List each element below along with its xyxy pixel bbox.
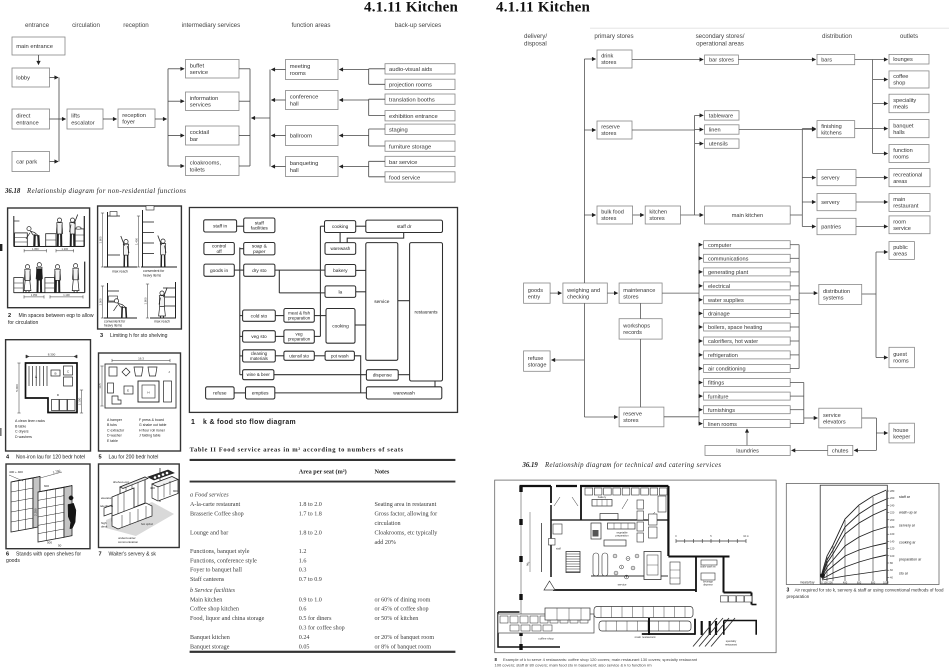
wire trunk3 to function box xyxy=(272,99,286,101)
floorplan mid kitchen islands xyxy=(600,514,618,520)
chart y ticks xyxy=(887,490,889,492)
svg-text:4.1.11 Kitchen: 4.1.11 Kitchen xyxy=(496,0,591,16)
box cleaning materials xyxy=(243,350,276,362)
wire trunk to drink stores xyxy=(584,58,595,60)
svg-text:house: house xyxy=(893,428,908,434)
chart curve cooking xyxy=(822,527,887,577)
svg-text:main: main xyxy=(893,197,905,203)
fig4 top dim xyxy=(26,356,77,358)
wire dry sto - bakery xyxy=(275,269,325,271)
svg-text:stores: stores xyxy=(601,216,616,222)
svg-text:guest: guest xyxy=(893,352,907,358)
svg-text:E table: E table xyxy=(107,439,118,443)
box furniture xyxy=(704,392,791,400)
svg-text:telephone: telephone xyxy=(100,504,114,508)
svg-text:cloakrooms,: cloakrooms, xyxy=(190,161,222,167)
svg-text:Notes: Notes xyxy=(375,469,390,476)
svg-text:heavy items: heavy items xyxy=(104,324,122,328)
svg-text:keeper: keeper xyxy=(893,434,910,440)
svg-text:staff ar: staff ar xyxy=(899,495,911,499)
svg-text:or 8% of banquet room: or 8% of banquet room xyxy=(375,644,432,651)
svg-text:escalator: escalator xyxy=(71,120,95,126)
svg-text:8: 8 xyxy=(495,657,498,662)
wire workshops to reserve lower xyxy=(640,339,642,407)
svg-text:10.5: 10.5 xyxy=(98,383,102,389)
svg-text:stores: stores xyxy=(623,418,638,424)
wire bakery - service xyxy=(356,269,366,271)
trunk D2 vertical xyxy=(875,418,877,450)
svg-text:service: service xyxy=(893,226,911,232)
svg-text:Min spaces between eqp to allo: Min spaces between eqp to allow xyxy=(19,313,94,319)
fig3 Q4 wall and shelves xyxy=(175,282,177,318)
svg-text:sto ar: sto ar xyxy=(899,572,909,576)
box fittings xyxy=(704,379,791,387)
box car park xyxy=(12,152,50,172)
box drainage xyxy=(704,309,791,317)
svg-text:checking: checking xyxy=(567,294,589,300)
stack trunk R2 vertical xyxy=(803,383,805,424)
fig7 screen panel front xyxy=(112,488,134,521)
fig4 left dim xyxy=(18,363,20,413)
svg-text:D washer: D washer xyxy=(107,434,123,438)
svg-text:Brasserie Coffee shop: Brasserie Coffee shop xyxy=(190,511,244,518)
stub R2 linen rooms xyxy=(790,423,804,425)
floorplan left curtain wall xyxy=(520,486,522,646)
svg-text:service: service xyxy=(823,413,841,419)
svg-text:furniture: furniture xyxy=(708,394,729,400)
fig2 person at shelf xyxy=(70,218,74,222)
svg-text:areas: areas xyxy=(893,252,907,258)
svg-text:heavy items: heavy items xyxy=(143,273,161,277)
svg-text:function areas: function areas xyxy=(292,22,331,29)
svg-text:entrance: entrance xyxy=(25,22,50,29)
svg-text:260: 260 xyxy=(890,496,895,500)
svg-text:servery ar: servery ar xyxy=(899,524,916,528)
fig7 high desk xyxy=(104,505,112,516)
svg-text:restaurant: restaurant xyxy=(725,642,737,646)
trunk4 vertical xyxy=(249,69,251,166)
wire reserve lower to stack trunk L xyxy=(664,416,699,418)
svg-text:exhibition entrance: exhibition entrance xyxy=(389,114,438,120)
box lifts escalator xyxy=(67,109,103,129)
box service xyxy=(366,243,398,361)
fig4 plan walls xyxy=(26,363,78,413)
fig2 person dark row2 xyxy=(37,263,41,267)
fig5 folding table J2 xyxy=(164,381,172,402)
svg-text:warewash: warewash xyxy=(330,246,350,251)
wire weighing to maintenance stores xyxy=(607,292,617,294)
box speciality meals xyxy=(889,94,929,113)
svg-text:kitchens: kitchens xyxy=(821,130,842,136)
floorplan top wall xyxy=(520,485,552,487)
fig3 Q2 ground xyxy=(141,266,177,268)
wire L to boilers, space heating xyxy=(699,326,702,328)
fig3 Q3 wall and shelves xyxy=(107,283,109,318)
svg-text:lounges: lounges xyxy=(893,57,913,63)
fig1 vertical x320 xyxy=(319,226,321,336)
svg-text:services: services xyxy=(190,103,211,109)
fig2 row1 left wall xyxy=(13,216,15,247)
fig3 Q4 ground xyxy=(150,317,176,319)
wire cleaning - utensil sto xyxy=(275,355,284,357)
fig3 Q1 wall and shelves xyxy=(107,212,109,267)
box refuse storage xyxy=(524,351,551,371)
svg-text:primary stores: primary stores xyxy=(594,33,633,40)
box house keeper xyxy=(889,423,914,443)
svg-text:max reach: max reach xyxy=(154,319,170,323)
svg-text:workshops: workshops xyxy=(622,324,650,330)
svg-text:banqueting: banqueting xyxy=(290,161,319,167)
svg-text:intermediary services: intermediary services xyxy=(182,22,240,29)
svg-text:utensils: utensils xyxy=(709,142,728,148)
svg-text:J folding table: J folding table xyxy=(139,434,161,438)
box reserve stores lower xyxy=(619,407,664,427)
figure 3 frame: limiting heights for sto shelving xyxy=(98,206,182,329)
svg-text:2: 2 xyxy=(8,313,11,319)
box translation booths xyxy=(385,94,455,104)
wire D2 to house keeper xyxy=(876,432,887,434)
svg-text:2.250: 2.250 xyxy=(34,508,38,516)
box cold sto xyxy=(243,310,276,321)
fig6 person silhouette xyxy=(68,496,76,529)
fig2 row1 ground xyxy=(14,246,85,248)
svg-text:4: 4 xyxy=(6,454,10,460)
svg-text:kitchen: kitchen xyxy=(649,210,667,216)
wire main kitchen to trunk C xyxy=(790,214,802,216)
svg-text:fittings: fittings xyxy=(708,381,724,387)
wire B to coffee shop xyxy=(873,79,888,81)
svg-text:preparation: preparation xyxy=(615,533,629,537)
wire empties - warewash bottom xyxy=(275,392,367,394)
svg-text:bottle wash rm: bottle wash rm xyxy=(700,566,716,569)
svg-text:linen: linen xyxy=(709,127,721,133)
box service elevators xyxy=(819,408,862,428)
box function rooms xyxy=(889,145,929,163)
trunk3 vertical xyxy=(269,70,271,167)
box meeting rooms xyxy=(286,60,339,80)
svg-text:Cloakrooms, etc typically: Cloakrooms, etc typically xyxy=(375,531,439,537)
svg-text:F press & board: F press & board xyxy=(139,418,164,422)
svg-text:Non-iron lau for 120 bedr hote: Non-iron lau for 120 bedr hotel xyxy=(16,454,85,460)
svg-text:A clean linen racks: A clean linen racks xyxy=(15,419,45,423)
svg-text:distribution: distribution xyxy=(823,289,850,295)
box kitchen stores xyxy=(645,206,680,224)
wire reserve stores to V2 xyxy=(632,129,695,131)
box veg sto xyxy=(243,331,276,342)
svg-text:cooking: cooking xyxy=(332,224,349,230)
box utensil sto xyxy=(284,351,314,360)
wire car park to trunk xyxy=(50,161,59,163)
wire main entrance to lobby xyxy=(38,55,40,65)
figure 2 frame: min spaces between equipment xyxy=(8,208,90,308)
stub R1 electrical xyxy=(790,285,799,287)
svg-text:3: 3 xyxy=(787,588,790,594)
svg-text:goods in: goods in xyxy=(210,268,228,274)
wire servery to main restaurant xyxy=(856,201,887,203)
svg-text:tableware: tableware xyxy=(709,113,733,119)
svg-text:function: function xyxy=(893,148,913,154)
fig2 row2 table left xyxy=(14,278,23,293)
trunk C vertical xyxy=(801,129,803,227)
svg-text:coffee shop: coffee shop xyxy=(538,637,554,641)
svg-text:food service: food service xyxy=(389,175,420,181)
wire reception foyer to trunk2 xyxy=(155,118,167,120)
svg-text:meeting: meeting xyxy=(290,64,311,70)
svg-text:hall: hall xyxy=(290,168,299,174)
svg-text:400: 400 xyxy=(150,486,155,490)
box exhibition entrance xyxy=(385,111,455,121)
floorplan right column small rooms xyxy=(637,500,644,509)
svg-text:reserve: reserve xyxy=(623,412,642,418)
fig3 Q2 wall and shelves xyxy=(142,210,144,267)
wire intermediary to trunk4 xyxy=(239,68,250,70)
svg-text:1.8 to 2.0: 1.8 to 2.0 xyxy=(299,531,322,537)
svg-text:cocktail: cocktail xyxy=(190,130,209,136)
svg-text:public: public xyxy=(893,245,908,251)
box soap and paper xyxy=(244,243,275,256)
svg-text:1.2: 1.2 xyxy=(299,549,307,555)
floorplan top equipment row xyxy=(585,488,593,495)
wire utensil sto - pot wash xyxy=(314,355,325,357)
svg-text:drink: drink xyxy=(601,54,613,60)
fig7 screen panel back xyxy=(120,477,145,513)
svg-text:2.100: 2.100 xyxy=(78,397,82,405)
svg-text:dispense: dispense xyxy=(373,373,393,379)
svg-text:goods: goods xyxy=(528,288,543,294)
floorplan stairs diagonal hatch xyxy=(693,618,717,647)
wire chutes to laundries xyxy=(792,449,828,451)
wire x320 - cooking top xyxy=(320,225,324,227)
svg-text:b Service facilities: b Service facilities xyxy=(190,587,236,594)
box chutes xyxy=(828,445,853,455)
svg-text:bar stores: bar stores xyxy=(709,58,734,64)
wire service elevators to trunk D2 xyxy=(862,417,877,419)
svg-text:400 + 400: 400 + 400 xyxy=(9,470,23,474)
wire veg sto - veg prep xyxy=(275,335,284,337)
trunk D vertical xyxy=(875,252,877,358)
link conference hall to translation/exhibition xyxy=(368,99,370,115)
svg-text:systems: systems xyxy=(823,296,844,302)
svg-text:1.400: 1.400 xyxy=(135,238,139,245)
link ballroom to staging/furniture xyxy=(368,129,370,146)
fig2 row2 dims xyxy=(24,296,44,298)
svg-text:drainage: drainage xyxy=(708,312,730,318)
wire finishing kitchens to banquet halls xyxy=(855,128,888,130)
box projection rooms xyxy=(385,79,455,89)
wire C to servery 2 xyxy=(802,201,815,203)
box goods in xyxy=(204,264,234,276)
figure 4 frame: non-iron laundry plan xyxy=(6,340,91,451)
wire L to refrigeration xyxy=(699,354,702,356)
svg-text:dispense: dispense xyxy=(703,583,713,586)
wire cooking top - warewash top xyxy=(339,233,341,243)
svg-text:7: 7 xyxy=(99,551,102,557)
svg-text:secondary stores/: secondary stores/ xyxy=(696,33,745,40)
svg-text:C extractor: C extractor xyxy=(107,428,125,432)
svg-text:Example of k to serve 4 restau: Example of k to serve 4 restaurants: cof… xyxy=(503,657,698,662)
svg-text:back-up services: back-up services xyxy=(395,22,441,29)
svg-text:empties: empties xyxy=(252,391,269,397)
fig5 left dim xyxy=(101,366,103,406)
fig4 washers D xyxy=(52,400,60,411)
wire intermediary to trunk4 xyxy=(239,100,250,102)
svg-text:servery: servery xyxy=(821,176,840,182)
svg-text:Air required for sto k, server: Air required for sto k, servery & staff … xyxy=(795,588,944,593)
svg-text:1.200: 1.200 xyxy=(62,247,69,251)
svg-text:H: H xyxy=(147,391,149,395)
floorplan main restaurant counters xyxy=(594,607,693,618)
wire x279 - la xyxy=(279,292,325,294)
wire trunk3 to function box xyxy=(272,69,286,71)
box meat and fish preparation xyxy=(284,309,314,323)
box bars xyxy=(817,54,855,64)
wire pot wash - warewash link xyxy=(354,356,360,393)
svg-text:main kitchen: main kitchen xyxy=(732,213,763,219)
fig2 person 3 row2 xyxy=(55,265,59,269)
wire trunk to bulk food stores xyxy=(584,214,595,216)
wire V2 to utensils xyxy=(695,143,704,145)
wire restaurants - warewash bottom xyxy=(434,381,436,387)
box furnishings xyxy=(704,406,791,414)
svg-text:room: room xyxy=(893,220,906,226)
chart plot area xyxy=(820,485,887,584)
svg-text:translation booths: translation booths xyxy=(389,98,435,104)
trunk outlets vertical B xyxy=(872,60,874,154)
fig2 row1 shelf right xyxy=(75,229,84,246)
svg-text:bakery: bakery xyxy=(598,495,607,499)
fig3 Q1 person reaching xyxy=(124,240,128,244)
svg-text:add 20%: add 20% xyxy=(375,540,397,546)
wire C to pantries xyxy=(802,226,815,228)
svg-text:Table II Food service area: Table II Food service areas in m² accord… xyxy=(190,447,404,454)
svg-text:A hamper: A hamper xyxy=(107,418,123,422)
svg-text:stores: stores xyxy=(623,294,638,300)
fig1 outer frame xyxy=(189,208,457,413)
svg-text:Stands with open shelves for: Stands with open shelves for xyxy=(16,551,81,557)
svg-text:0.3: 0.3 xyxy=(299,568,307,574)
svg-text:entry: entry xyxy=(528,294,541,300)
svg-text:service: service xyxy=(190,70,208,76)
fig1 trunk vertical xyxy=(239,248,241,375)
wire la - service xyxy=(356,291,366,293)
fig7 back wall corner xyxy=(159,468,161,502)
svg-text:B: B xyxy=(54,372,56,376)
box cooking top xyxy=(325,221,356,233)
floorplan counters below step xyxy=(721,596,728,602)
svg-text:100: 100 xyxy=(890,554,895,558)
stub R1 computer xyxy=(790,244,799,246)
svg-text:shelves-opt: shelves-opt xyxy=(113,480,129,484)
svg-text:bar: bar xyxy=(190,137,198,143)
svg-text:400: 400 xyxy=(843,581,848,585)
svg-text:storage: storage xyxy=(528,362,547,368)
wire B to speciality meals xyxy=(873,103,888,105)
svg-text:outlets: outlets xyxy=(900,33,918,40)
svg-text:utensil sto: utensil sto xyxy=(289,353,309,358)
svg-text:laundries: laundries xyxy=(736,448,759,454)
svg-text:boilers, space heating: boilers, space heating xyxy=(708,325,762,331)
fig2 wall right row2 xyxy=(84,262,86,293)
box public areas xyxy=(889,242,914,260)
svg-text:operational areas: operational areas xyxy=(696,41,744,48)
wire D2 to chutes xyxy=(854,449,876,451)
svg-text:rooms: rooms xyxy=(893,155,909,161)
svg-text:disposal: disposal xyxy=(524,41,547,48)
floorplan right rooms block xyxy=(695,557,697,592)
svg-text:soap &: soap & xyxy=(252,244,268,250)
box electrical xyxy=(704,282,791,290)
wire lifts to reception foyer xyxy=(103,118,117,120)
svg-text:0 100 200: 0 100 200 xyxy=(821,581,833,585)
floorplan bakery island xyxy=(592,500,612,507)
svg-text:5: 5 xyxy=(99,454,102,460)
table top rule xyxy=(190,459,456,461)
box recreational areas xyxy=(889,169,930,187)
svg-text:0.6: 0.6 xyxy=(299,607,307,613)
svg-text:desk: desk xyxy=(101,525,108,529)
wire bar stores to bars xyxy=(738,59,815,61)
chart curve servery xyxy=(822,509,887,576)
wire trunk3 to function box xyxy=(272,135,286,137)
svg-text:1.800: 1.800 xyxy=(144,297,148,304)
fig7 range hood dark xyxy=(148,470,174,480)
wire trunk2 branch xyxy=(168,100,184,102)
page edge mark 1 xyxy=(0,244,2,251)
box dry sto xyxy=(244,264,275,276)
fig3 Q3 dim xyxy=(102,286,104,318)
wire L to linen rooms xyxy=(699,423,702,425)
wire meat fish - cooking big xyxy=(314,315,326,317)
trunk delivery vertical upper xyxy=(583,59,585,283)
svg-text:ballroom: ballroom xyxy=(290,134,312,140)
box laundries xyxy=(705,445,790,455)
svg-text:preparation ar: preparation ar xyxy=(899,558,922,562)
svg-text:paper: paper xyxy=(253,249,266,255)
svg-text:meals: meals xyxy=(893,105,908,111)
fig4 right dim xyxy=(81,390,83,413)
fig5 table E xyxy=(124,386,133,394)
box reserve stores xyxy=(597,121,632,139)
svg-text:reception: reception xyxy=(122,113,146,119)
fig5 left fixtures xyxy=(108,383,114,393)
wire V2 to linen xyxy=(695,129,704,131)
wire trunk to refuse storage xyxy=(552,359,585,361)
fig3 Q1 dim xyxy=(102,213,104,267)
wire cold sto - meat fish xyxy=(275,315,284,317)
svg-text:speciality: speciality xyxy=(893,98,916,104)
floorplan bottom counters coffee shop xyxy=(498,614,594,633)
fig7 front counter xyxy=(112,503,152,529)
floorplan service sofas xyxy=(593,553,599,576)
svg-text:36.18: 36.18 xyxy=(4,188,21,195)
wire L to drainage xyxy=(699,312,702,314)
box cloakrooms toilets xyxy=(186,157,240,176)
box empties xyxy=(246,387,275,399)
svg-text:Lounge and bar: Lounge and bar xyxy=(190,531,228,537)
wire distribution systems to trunk D xyxy=(862,293,876,295)
box staff facilities xyxy=(244,218,275,233)
fig3 Q4 dim xyxy=(147,284,149,318)
box warewash top xyxy=(325,243,356,255)
svg-text:E: E xyxy=(127,389,129,393)
svg-text:8.300: 8.300 xyxy=(48,353,56,357)
svg-text:A-la-carte restaurant: A-la-carte restaurant xyxy=(190,502,241,508)
svg-text:B tubs: B tubs xyxy=(107,423,117,427)
floorplan corridor marks xyxy=(529,512,531,572)
svg-text:information: information xyxy=(190,96,219,102)
svg-text:Lau for 200 bedr hotel: Lau for 200 bedr hotel xyxy=(109,454,159,460)
box veg preparation xyxy=(284,330,314,343)
